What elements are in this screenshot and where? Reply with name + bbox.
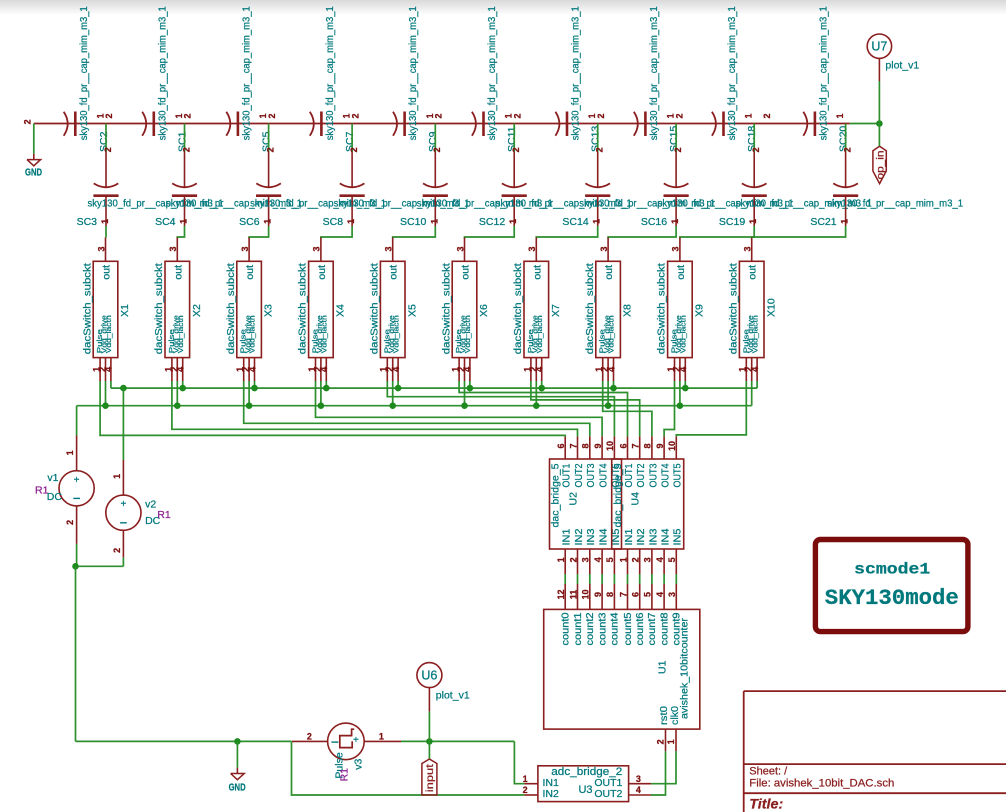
- svg-text:3: 3: [636, 774, 641, 784]
- svg-text:count3: count3: [597, 612, 608, 645]
- svg-text:out: out: [675, 265, 687, 280]
- U4 OUT4 pin 9: [663, 437, 665, 459]
- junction line A X6: [467, 385, 474, 392]
- svg-text:3: 3: [527, 246, 537, 251]
- junction line B X2: [174, 402, 181, 409]
- svg-text:Vdd_lacth: Vdd_lacth: [463, 315, 472, 353]
- dacSwitch X1 pin 3: [105, 238, 107, 262]
- svg-text:SC12: SC12: [479, 216, 505, 228]
- wire left vertical to bottom net: [75, 566, 77, 741]
- wire X5 pin2 to line B: [392, 381, 394, 406]
- wire X7 pin1 to dac bridge out pin: [531, 381, 640, 437]
- svg-text:GND: GND: [229, 782, 246, 794]
- svg-text:Title:: Title:: [749, 795, 783, 811]
- svg-text:out: out: [388, 265, 400, 280]
- dacSwitch X7 bottom pins 1 2 4: [530, 358, 532, 381]
- svg-text:IN2: IN2: [636, 529, 647, 546]
- wire X7 pin2 to line B: [535, 381, 537, 406]
- junction line B X5: [389, 402, 396, 409]
- svg-text:1: 1: [840, 219, 850, 224]
- global label input: [428, 741, 430, 759]
- wire junction stub SC9: [434, 124, 436, 153]
- capacitor SC14 (vertical): [597, 152, 599, 187]
- top gradient: [0, 0, 1006, 15]
- junction input node: [426, 738, 433, 745]
- svg-text:OUT2: OUT2: [594, 788, 622, 800]
- svg-text:IN2: IN2: [574, 529, 585, 546]
- svg-text:SC3: SC3: [77, 216, 98, 228]
- wire line B to V1: [76, 406, 78, 436]
- junction V1/V2 bottom: [72, 563, 79, 570]
- svg-text:Vdd_lacth: Vdd_lacth: [679, 315, 688, 353]
- wire X3 pin1 to dac bridge out pin: [244, 381, 590, 437]
- svg-text:2: 2: [103, 147, 113, 152]
- dacSwitch X10 bottom pins 1 2 4: [745, 358, 747, 381]
- U2 OUT3 pin 8: [589, 437, 591, 459]
- U2 OUT2 pin 7: [577, 437, 579, 459]
- svg-text:count4: count4: [610, 612, 621, 645]
- wire SC14 to X7 pin3: [536, 226, 597, 239]
- svg-text:Vdd_lacth: Vdd_lacth: [104, 315, 113, 353]
- U2 IN1 pin 1: [564, 549, 566, 574]
- dacSwitch X3 pin 3: [248, 238, 250, 262]
- text box scmode1 SKY130mode: [815, 540, 968, 632]
- svg-text:OUT2: OUT2: [574, 464, 585, 488]
- wire U2 IN1 to counter: [564, 574, 566, 584]
- wire X6 pin1 to dac bridge out pin: [459, 381, 627, 437]
- svg-text:R1: R1: [157, 509, 171, 521]
- svg-text:Vdd_lacth: Vdd_lacth: [320, 315, 329, 353]
- svg-text:count6: count6: [635, 612, 646, 645]
- dacSwitch X8 pin 3: [607, 238, 609, 262]
- svg-text:op_in: op_in: [875, 151, 886, 180]
- svg-text:2: 2: [104, 113, 114, 118]
- U2 OUT1 pin 6: [564, 437, 566, 459]
- svg-text:2: 2: [631, 557, 641, 562]
- capacitor SC5 (top row): [226, 112, 230, 136]
- svg-text:count2: count2: [585, 612, 596, 645]
- svg-text:2: 2: [595, 147, 605, 152]
- svg-text:6: 6: [618, 443, 628, 448]
- svg-text:1: 1: [670, 219, 680, 224]
- svg-text:dacSwitch_subckt: dacSwitch_subckt: [656, 263, 668, 354]
- svg-text:out: out: [172, 265, 184, 280]
- svg-text:IN1: IN1: [562, 529, 573, 546]
- svg-text:9: 9: [593, 592, 603, 597]
- svg-text:1: 1: [508, 219, 518, 224]
- wire U4 IN5 to counter: [675, 574, 677, 584]
- svg-text:scmode1: scmode1: [854, 561, 930, 579]
- wire V1 to ground node: [76, 544, 78, 566]
- svg-text:6: 6: [556, 443, 566, 448]
- dacSwitch X8 bottom pins 1 2 4: [602, 358, 604, 381]
- svg-text:IN2: IN2: [543, 788, 560, 800]
- wire X2 pin4 to line A: [182, 381, 184, 388]
- wire U2 IN3 to counter: [589, 574, 591, 584]
- svg-text:Vdd_lacth: Vdd_lacth: [535, 315, 544, 353]
- capacitor SC2 (top row): [64, 112, 68, 136]
- U4 IN2 pin 2: [639, 549, 641, 574]
- svg-text:2: 2: [511, 147, 521, 152]
- svg-text:OUT3: OUT3: [648, 463, 659, 487]
- junction line B X3: [246, 402, 253, 409]
- svg-text:count7: count7: [647, 612, 658, 645]
- svg-text:2: 2: [65, 520, 75, 525]
- svg-text:count1: count1: [573, 612, 584, 645]
- svg-text:dacSwitch_subckt: dacSwitch_subckt: [225, 263, 237, 354]
- wire X10 pin1 to dac bridge out pin: [676, 381, 746, 437]
- capacitor SC12 (vertical): [513, 152, 515, 187]
- svg-text:1: 1: [556, 557, 566, 562]
- wire X5 pin1 to dac bridge out pin: [387, 381, 614, 437]
- svg-text:2: 2: [512, 113, 522, 118]
- svg-text:2: 2: [656, 739, 666, 744]
- wire to bottom GND: [236, 741, 238, 767]
- junction line A X3: [251, 385, 258, 392]
- svg-text:OUT1: OUT1: [624, 464, 635, 488]
- dacSwitch X4 body: [309, 261, 334, 357]
- plot U7: [878, 58, 880, 81]
- U1 count0 pin 12: [564, 584, 566, 609]
- svg-text:2: 2: [843, 147, 853, 152]
- dacSwitch X4 bottom pins 1 2 4: [315, 358, 317, 381]
- svg-text:plot_v1: plot_v1: [436, 689, 470, 701]
- svg-text:X8: X8: [622, 304, 634, 317]
- U1 count8 pin 4: [663, 584, 665, 609]
- wire line A to V2: [122, 388, 124, 460]
- U2 OUT5 pin 10: [613, 437, 615, 459]
- U1 count7 pin 5: [651, 584, 653, 609]
- capacitor SC11 (top row): [472, 112, 476, 136]
- U1 count3 pin 9: [601, 584, 603, 609]
- svg-text:3: 3: [643, 557, 653, 562]
- wire X1 pin4 to line A: [110, 381, 112, 388]
- U2 IN3 pin 3: [589, 549, 591, 574]
- svg-text:sky130_fd_pr__cap_mim_m3_1: sky130_fd_pr__cap_mim_m3_1: [156, 6, 168, 140]
- svg-text:SC21: SC21: [810, 216, 836, 228]
- ground GND bottom: [236, 768, 238, 774]
- svg-text:3: 3: [168, 246, 178, 251]
- wire bottom main: [76, 740, 292, 742]
- svg-text:3: 3: [671, 246, 681, 251]
- svg-text:10: 10: [581, 589, 591, 599]
- wire junction stub SC20: [845, 124, 847, 153]
- svg-text:4: 4: [319, 367, 329, 372]
- svg-text:OUT1: OUT1: [562, 464, 573, 488]
- svg-text:1: 1: [379, 732, 384, 742]
- svg-text:7: 7: [618, 592, 628, 597]
- svg-text:1: 1: [100, 219, 110, 224]
- svg-text:X10: X10: [765, 298, 777, 317]
- pin IN1 U3 pin 1: [524, 783, 538, 785]
- junction line B X9: [677, 402, 684, 409]
- svg-text:5: 5: [667, 557, 677, 562]
- svg-text:out: out: [101, 265, 113, 280]
- title block frame: [744, 691, 1006, 812]
- wire V2 to V1 bottom node: [76, 565, 124, 567]
- dacSwitch X9 body: [668, 261, 693, 357]
- svg-text:3: 3: [240, 246, 250, 251]
- svg-text:out: out: [603, 265, 615, 280]
- wire U4 IN1 to counter: [627, 574, 629, 584]
- svg-text:dac_bridge_5: dac_bridge_5: [550, 463, 562, 527]
- svg-text:2: 2: [434, 113, 444, 118]
- svg-text:dacSwitch_subckt: dacSwitch_subckt: [584, 263, 596, 354]
- svg-text:dacSwitch_subckt: dacSwitch_subckt: [512, 263, 524, 354]
- wire junction stub SC11: [513, 124, 515, 153]
- wire X1 pin2 to line B: [105, 381, 107, 406]
- dacSwitch X1 bottom pins 1 2 4: [99, 358, 101, 381]
- svg-text:IN3: IN3: [586, 528, 597, 546]
- wire SC3 to X1 pin3: [105, 226, 107, 238]
- svg-text:GND: GND: [25, 167, 42, 179]
- wire junction stub SC13: [597, 124, 599, 153]
- svg-text:4: 4: [750, 367, 760, 372]
- svg-text:5: 5: [605, 557, 615, 562]
- svg-text:4: 4: [247, 367, 257, 372]
- dacSwitch X7 pin 3: [535, 238, 537, 262]
- pin IN2 U3 pin 2: [524, 794, 538, 796]
- U1 count4 pin 8: [613, 584, 615, 609]
- svg-text:IN4: IN4: [661, 528, 672, 546]
- svg-text:X2: X2: [191, 304, 203, 317]
- capacitor SC7 (top row): [310, 112, 314, 136]
- svg-text:2: 2: [307, 732, 312, 742]
- svg-text:sky130_fd_pr__cap_mim_m3_1: sky130_fd_pr__cap_mim_m3_1: [78, 6, 90, 140]
- svg-text:R1: R1: [339, 768, 351, 782]
- junction line B X7: [533, 402, 540, 409]
- wire X4 pin4 to line A: [325, 381, 327, 388]
- wire SC19 to X9 pin3: [680, 226, 754, 239]
- svg-text:count8: count8: [659, 612, 670, 645]
- capacitor SC4 (vertical): [184, 152, 186, 187]
- svg-text:2: 2: [762, 113, 772, 118]
- wire top horizontal net: [34, 123, 850, 125]
- wire U2 IN2 to counter: [577, 574, 579, 584]
- svg-text:2: 2: [112, 548, 122, 553]
- svg-text:sky130_fd_pr__cap_mim_m3_1: sky130_fd_pr__cap_mim_m3_1: [240, 6, 252, 140]
- svg-text:count0: count0: [561, 612, 572, 645]
- U1 count6 pin 6: [639, 584, 641, 609]
- junction line A X2: [179, 385, 186, 392]
- svg-text:2: 2: [266, 147, 276, 152]
- svg-text:7: 7: [568, 443, 578, 448]
- wire U4 IN4 to counter: [663, 574, 665, 584]
- dacSwitch X2 body: [165, 261, 190, 357]
- svg-text:dacSwitch_subckt: dacSwitch_subckt: [728, 263, 740, 354]
- svg-text:X3: X3: [263, 304, 275, 317]
- svg-text:U6: U6: [421, 669, 437, 683]
- dacSwitch X2 bottom pins 1 2 4: [171, 358, 173, 381]
- svg-text:X1: X1: [119, 304, 131, 317]
- svg-text:IN1: IN1: [624, 529, 635, 546]
- svg-text:sky130_fd_pr__cap_mim_m3_1: sky130_fd_pr__cap_mim_m3_1: [648, 6, 660, 140]
- svg-text:4: 4: [176, 367, 186, 372]
- svg-text:dacSwitch_subckt: dacSwitch_subckt: [153, 263, 165, 354]
- svg-text:Vdd_lacth: Vdd_lacth: [248, 315, 257, 353]
- svg-text:dac_bridge_5: dac_bridge_5: [612, 463, 624, 527]
- svg-text:4: 4: [655, 592, 665, 597]
- wire SC16 to X8 pin3: [608, 226, 676, 239]
- capacitor SC18 (top row): [712, 112, 716, 136]
- svg-text:1: 1: [523, 774, 528, 784]
- wire X2 pin2 to line B: [176, 381, 178, 406]
- svg-text:dacSwitch_subckt: dacSwitch_subckt: [297, 263, 309, 354]
- svg-text:+: +: [74, 475, 80, 486]
- wire X3 pin2 to line B: [248, 381, 250, 406]
- svg-text:3: 3: [599, 246, 609, 251]
- svg-text:out: out: [460, 265, 472, 280]
- wire rst0 to adc OUT2: [651, 751, 666, 795]
- svg-text:U3: U3: [578, 784, 592, 796]
- svg-text:IN4: IN4: [599, 528, 610, 546]
- svg-text:clk0: clk0: [669, 706, 681, 725]
- svg-text:6: 6: [631, 592, 641, 597]
- svg-text:2: 2: [751, 147, 761, 152]
- svg-text:4: 4: [535, 367, 545, 372]
- U4 OUT1 pin 6: [627, 437, 629, 459]
- svg-text:input: input: [425, 764, 436, 792]
- pin OUT1 U3 pin 3: [629, 783, 651, 785]
- svg-text:avishek_10bitcounter: avishek_10bitcounter: [679, 617, 691, 719]
- U2 OUT4 pin 9: [601, 437, 603, 459]
- junction line A X9: [682, 385, 689, 392]
- wire X7 pin4 to line A: [541, 381, 543, 388]
- svg-text:1: 1: [835, 113, 845, 118]
- dacSwitch X5 pin 3: [392, 238, 394, 262]
- junction line B X4: [318, 402, 325, 409]
- junction line A to V2: [120, 385, 127, 392]
- dac_bridge_5 U4 body: [612, 459, 684, 549]
- svg-text:SKY130mode: SKY130mode: [825, 585, 959, 611]
- wire X1 pin1 to dac bridge out pin: [100, 381, 565, 437]
- svg-text:1: 1: [65, 450, 75, 455]
- svg-text:9: 9: [593, 443, 603, 448]
- wire down to adc IN1: [514, 741, 524, 783]
- U2 IN5 pin 5: [613, 549, 615, 574]
- svg-text:out: out: [244, 265, 256, 280]
- capacitor SC15 (top row): [634, 112, 638, 136]
- svg-text:Vdd_lacth: Vdd_lacth: [391, 315, 400, 353]
- plot U6: [428, 711, 430, 741]
- svg-text:IN3: IN3: [648, 528, 659, 546]
- junction line A X4: [323, 385, 330, 392]
- U4 OUT3 pin 8: [651, 437, 653, 459]
- svg-text:dacSwitch_subckt: dacSwitch_subckt: [81, 263, 93, 354]
- capacitor SC16 (vertical): [675, 152, 677, 187]
- pin OUT2 U3 pin 4: [629, 794, 651, 796]
- wire down to adc IN2: [292, 741, 525, 795]
- wire junction stub SC2: [105, 124, 107, 153]
- adc_bridge_2 U3 body: [538, 766, 629, 802]
- wire junction stub SC18: [753, 124, 755, 153]
- svg-text:12: 12: [556, 589, 566, 599]
- svg-text:Vdd_lacth: Vdd_lacth: [607, 315, 616, 353]
- gnd wire top left: [33, 124, 35, 154]
- svg-text:2: 2: [183, 113, 193, 118]
- capacitor SC10 (vertical): [434, 152, 436, 187]
- svg-text:10: 10: [605, 441, 615, 451]
- svg-text:IN5: IN5: [673, 528, 684, 546]
- svg-text:1: 1: [666, 739, 676, 744]
- svg-text:4: 4: [463, 367, 473, 372]
- wire X3 pin4 to line A: [254, 381, 256, 388]
- svg-text:3: 3: [384, 246, 394, 251]
- global label op_in: [873, 146, 886, 183]
- junction line B X1: [102, 402, 109, 409]
- junction GND bottom: [234, 738, 241, 745]
- dacSwitch X6 body: [452, 261, 477, 357]
- wire junction stub SC5: [268, 124, 270, 153]
- wire X4 pin1 to dac bridge out pin: [316, 381, 603, 437]
- wire X6 pin4 to line A: [469, 381, 471, 388]
- U4 IN1 pin 1: [627, 549, 629, 574]
- U2 IN4 pin 4: [601, 549, 603, 574]
- svg-text:4: 4: [655, 557, 665, 562]
- svg-text:OUT2: OUT2: [636, 464, 647, 488]
- svg-text:U4: U4: [630, 492, 642, 506]
- svg-text:X6: X6: [478, 304, 490, 317]
- wire SC10 to X5 pin3: [393, 226, 436, 239]
- dacSwitch X7 body: [524, 261, 549, 357]
- wire SC12 to X6 pin3: [465, 226, 515, 239]
- junction line B X8: [605, 402, 612, 409]
- dacSwitch X3 body: [237, 261, 262, 357]
- svg-text:3: 3: [455, 246, 465, 251]
- dacSwitch X1 body: [93, 261, 118, 357]
- voltage source V1: [76, 436, 78, 471]
- wire X10 pin2 to line B: [751, 381, 753, 406]
- svg-text:SC6: SC6: [239, 216, 260, 228]
- wire SC21 to X10 pin3: [752, 226, 846, 239]
- dacSwitch X9 pin 3: [679, 238, 681, 262]
- svg-text:Vdd_lacth: Vdd_lacth: [750, 315, 759, 353]
- wire X8 pin4 to line A: [613, 381, 615, 388]
- svg-text:Sheet: /: Sheet: /: [749, 765, 788, 777]
- svg-text:3: 3: [743, 246, 753, 251]
- svg-text:1: 1: [263, 219, 273, 224]
- svg-text:sky130_fd_pr__cap_mim_m3_1: sky130_fd_pr__cap_mim_m3_1: [817, 6, 829, 140]
- capacitor SC13 (top row): [555, 112, 559, 136]
- svg-text:X5: X5: [406, 304, 418, 317]
- svg-text:2: 2: [349, 147, 359, 152]
- U1 pin 2 rst0: [665, 729, 667, 751]
- svg-text:count5: count5: [623, 612, 634, 645]
- ground GND top-left: [33, 154, 35, 160]
- svg-text:X9: X9: [694, 304, 706, 317]
- dacSwitch X8 body: [596, 261, 621, 357]
- wire U2 IN4 to counter: [601, 574, 603, 584]
- dacSwitch X5 body: [380, 261, 405, 357]
- svg-text:dacSwitch_subckt: dacSwitch_subckt: [369, 263, 381, 354]
- wire X8 pin1 to dac bridge out pin: [603, 381, 652, 437]
- U2 IN2 pin 2: [577, 549, 579, 574]
- svg-text:8: 8: [643, 443, 653, 448]
- wire V2 bottom: [122, 557, 124, 566]
- U4 IN5 pin 5: [675, 549, 677, 574]
- svg-text:sky130_fd_pr__cap_mim_m3_1: sky130_fd_pr__cap_mim_m3_1: [827, 197, 963, 209]
- svg-text:sky130_fd_pr__cap_mim_m3_1: sky130_fd_pr__cap_mim_m3_1: [407, 6, 419, 140]
- svg-text:Vdd_lacth: Vdd_lacth: [176, 315, 185, 353]
- svg-text:1: 1: [748, 219, 758, 224]
- dacSwitch X10 pin 3: [751, 238, 753, 262]
- svg-text:U7: U7: [871, 40, 887, 54]
- wire U4 IN2 to counter: [639, 574, 641, 584]
- capacitor SC3 (vertical): [105, 152, 107, 187]
- dac_bridge_5 U2 body: [550, 459, 622, 549]
- svg-text:X4: X4: [335, 304, 347, 317]
- svg-text:dacSwitch_subckt: dacSwitch_subckt: [440, 263, 452, 354]
